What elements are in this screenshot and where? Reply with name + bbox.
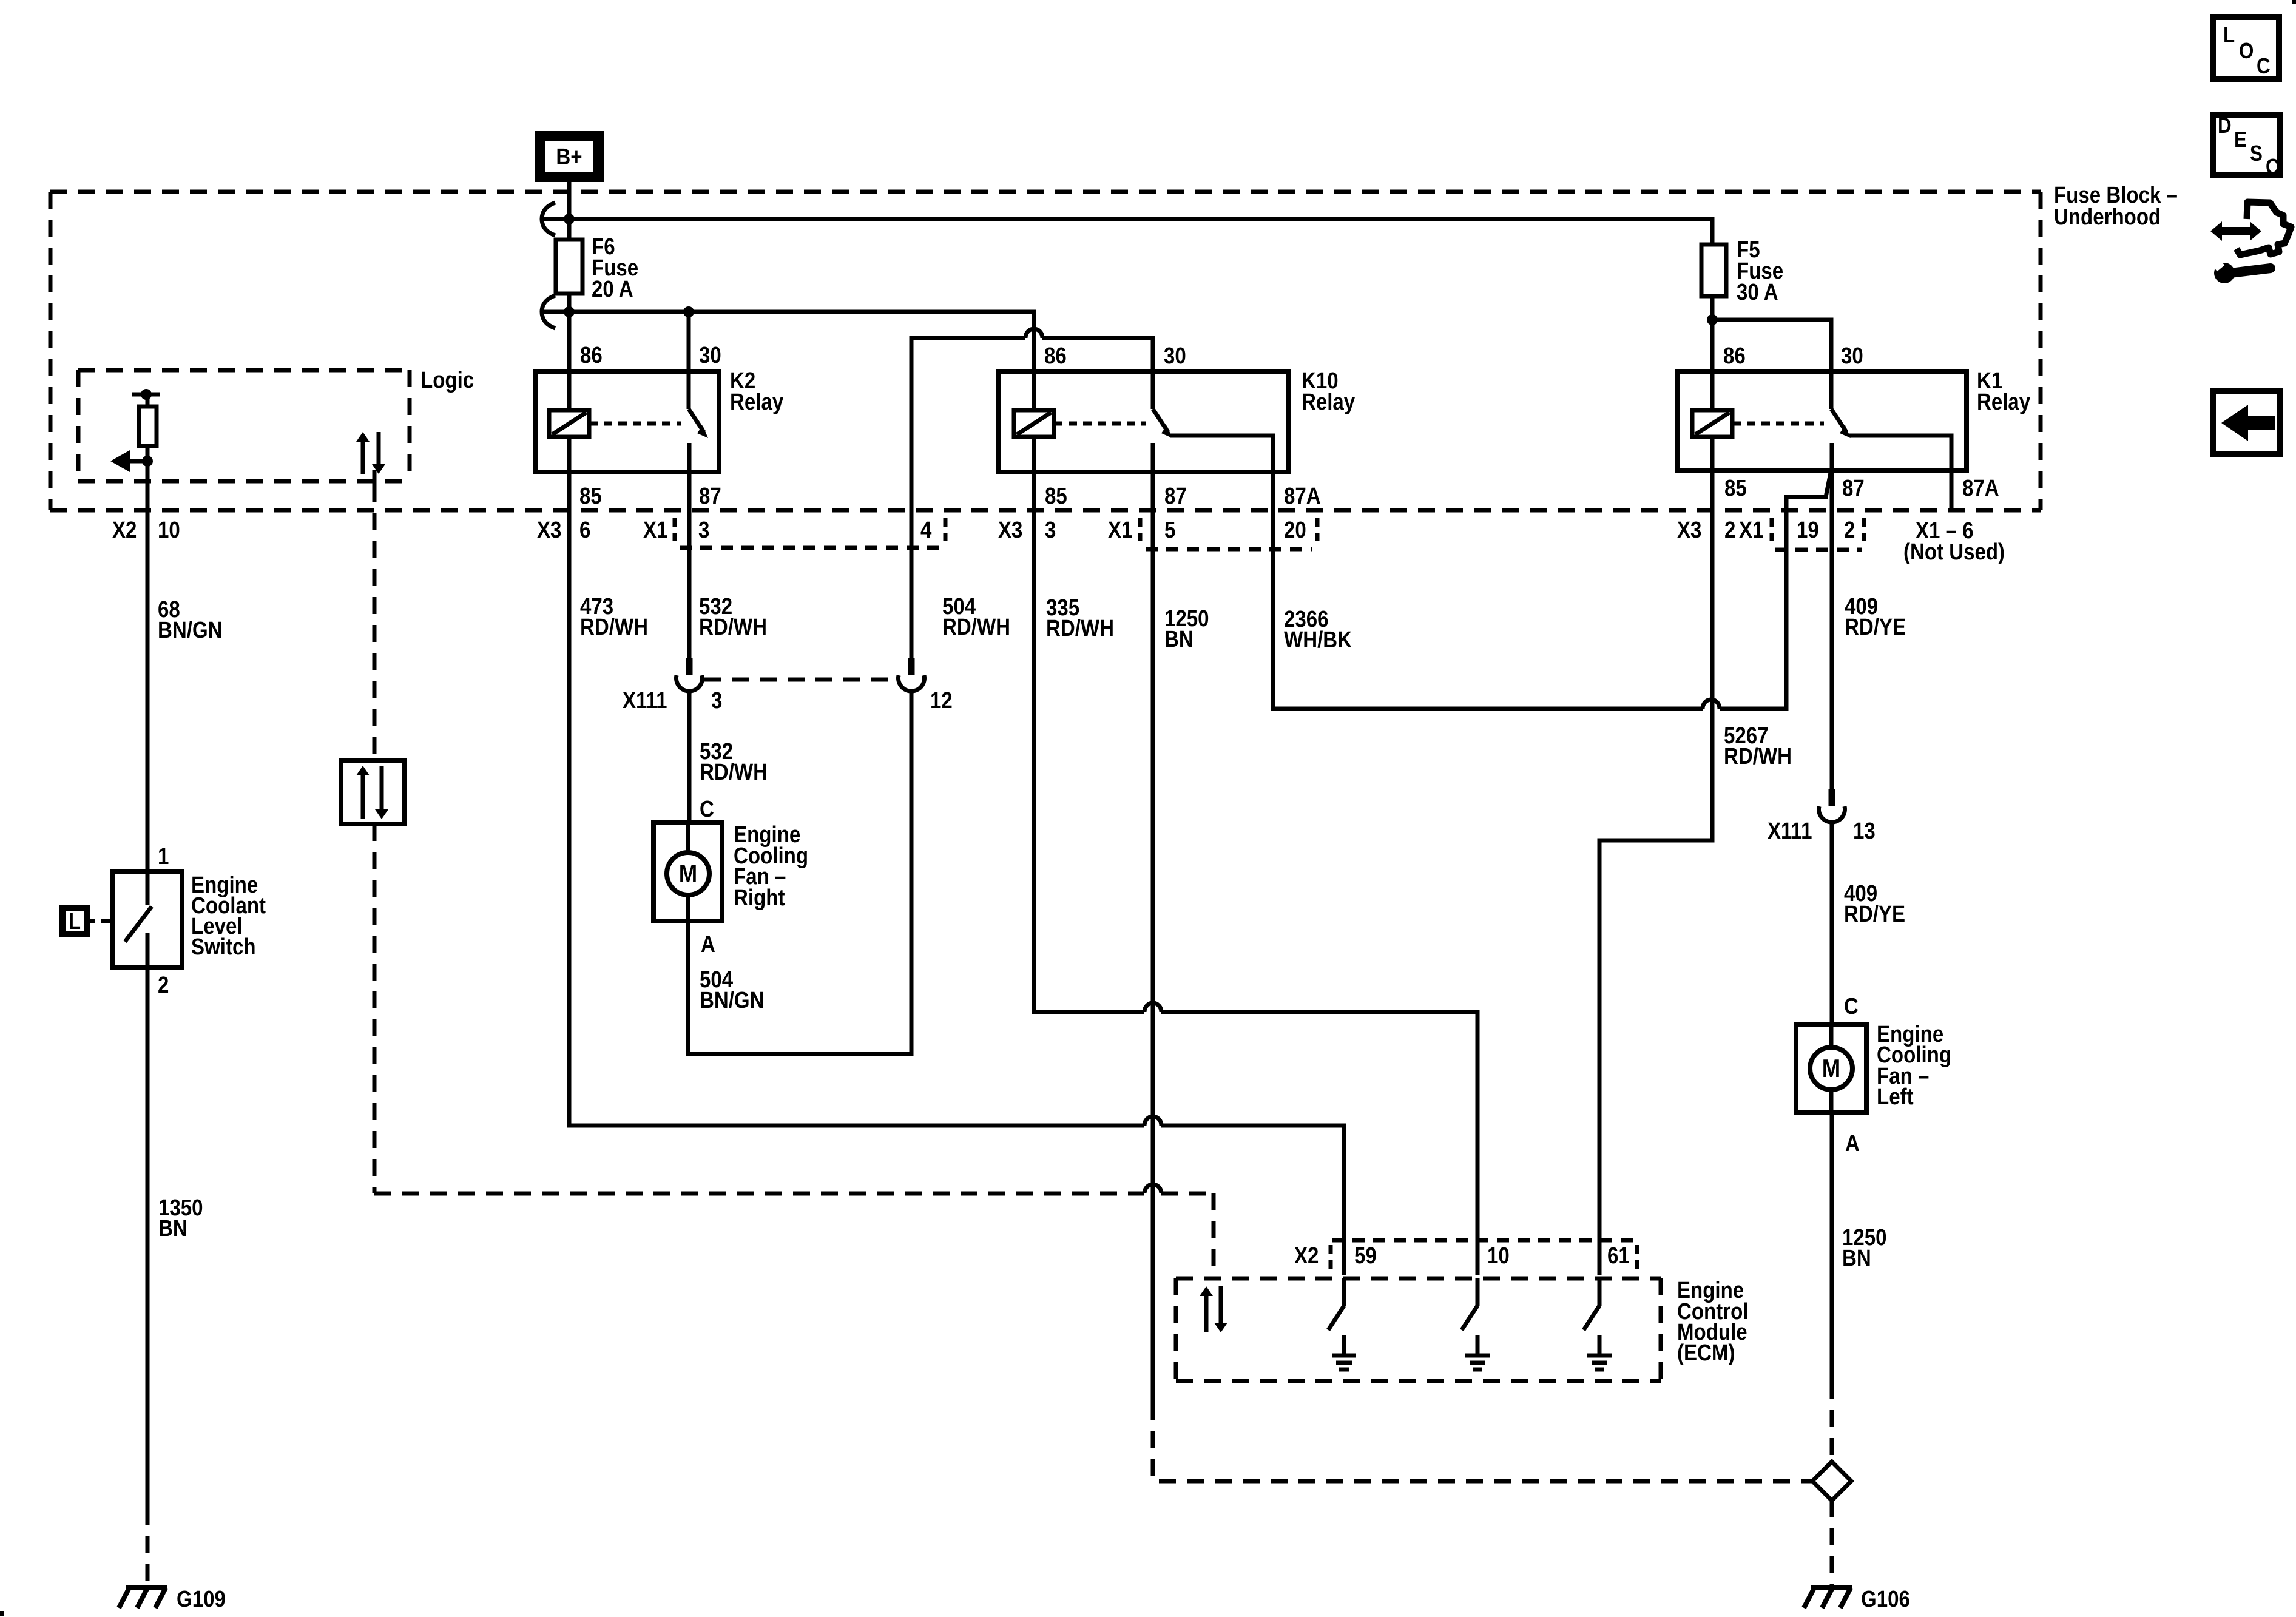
svg-text:BN: BN [158, 1215, 187, 1241]
label K1 Relay [1977, 368, 2030, 415]
wire labels 504 RD/WH [942, 593, 1010, 640]
svg-text:G106: G106 [1861, 1586, 1910, 1612]
svg-text:Left: Left [1877, 1084, 1914, 1110]
svg-text:RD/YE: RD/YE [1845, 614, 1906, 640]
wire labels 504 BN/GN [700, 967, 765, 1013]
svg-text:X3: X3 [537, 517, 561, 543]
label Engine Cooling Fan - Left [1877, 1021, 1951, 1110]
connector X1 dotted underside K2 side [680, 546, 940, 550]
connector X1 dashed tick at pin 4 [944, 518, 948, 541]
svg-text:X1: X1 [1108, 517, 1132, 543]
wire K1 pin 85 circuit 5267 down and left to ECM pin 61 [1599, 437, 1712, 1275]
svg-text:Logic: Logic [420, 367, 474, 393]
wire labels 473 RD/WH [580, 593, 648, 640]
relay K2 pin 87 stub [687, 443, 692, 472]
wire circuit 1250 fan left return down [1830, 1113, 1834, 1382]
wire labels 532 RD/WH at fan right [700, 738, 768, 785]
fan right motor internal lead [686, 823, 690, 921]
crossover hop of circuit 473 over circuit 1250 [1144, 1116, 1161, 1126]
crossover hop of circuit 2366 over circuit 5267 [1703, 700, 1720, 709]
svg-text:1: 1 [158, 843, 169, 869]
wire K2 pin 85 circuit 473 down and right to ECM pin 59 [569, 437, 1144, 1126]
wire labels 335 RD/WH [1046, 595, 1114, 641]
svg-text:L: L [2223, 23, 2235, 48]
engine cooling fan right motor box [653, 823, 722, 921]
svg-text:C: C [1844, 993, 1859, 1019]
svg-text:3: 3 [698, 517, 709, 543]
page corner mark bottom left [0, 1611, 4, 1616]
svg-text:X3: X3 [998, 517, 1022, 543]
svg-text:30: 30 [699, 342, 721, 368]
wire labels 2366 WH/BK [1284, 606, 1352, 653]
logic bidirectional arrows symbol [356, 432, 385, 474]
label K10 Relay [1302, 368, 1355, 415]
svg-text:L: L [69, 908, 81, 934]
svg-text:86: 86 [1044, 343, 1067, 369]
connector row labels X3 3 X1 5 20 under K10 [998, 517, 1306, 543]
relay K10 pin 87 stub [1151, 443, 1155, 472]
svg-text:C: C [700, 796, 714, 822]
svg-text:20: 20 [1284, 517, 1306, 543]
svg-text:X2: X2 [112, 517, 137, 543]
wire logic resistor down to X2-10 [146, 446, 150, 510]
wire labels 409 RD/YE upper [1845, 593, 1906, 640]
engine coolant level switch box [113, 872, 182, 967]
wire B+ down to fuse F6 [567, 182, 572, 240]
connector X111 pin 13 cup [1829, 789, 1835, 806]
wire below F6 to K2 relay coil pin 86 [567, 294, 572, 410]
svg-text:Relay: Relay [1302, 389, 1355, 415]
svg-text:RD/WH: RD/WH [699, 614, 767, 640]
logic resistor R [139, 394, 157, 446]
crossover hop of logic dashed wire over circuit 1250 [1144, 1184, 1161, 1193]
ECM driver switch pin 59 with ground [1328, 1278, 1356, 1369]
svg-text:87A: 87A [1962, 475, 1999, 501]
svg-text:2: 2 [1724, 517, 1735, 543]
svg-text:Relay: Relay [730, 389, 783, 415]
splice on B+ feed at wire to F5 [542, 203, 555, 235]
relay K2 actuator dashed link [589, 422, 681, 426]
relay K10 switch blade with arrowhead [1153, 409, 1172, 438]
svg-text:A: A [701, 931, 715, 957]
wire labels 409 RD/YE lower [1844, 880, 1905, 927]
svg-text:10: 10 [158, 517, 180, 543]
svg-text:2: 2 [158, 972, 169, 998]
svg-text:86: 86 [580, 342, 603, 368]
wire K10 pin 87A circuit 2366 down left loop to K1 pin 87 [1273, 472, 1703, 709]
junction node K2 pin 30 tap [683, 306, 694, 317]
margin icon DESC box [2213, 113, 2280, 180]
svg-text:X2: X2 [1294, 1243, 1319, 1269]
svg-text:85: 85 [1724, 475, 1747, 501]
connector X1 dashed tick at pin 19 [1770, 518, 1774, 541]
relay K10 actuator dashed link [1054, 422, 1146, 426]
svg-text:X3: X3 [1677, 517, 1701, 543]
B+ battery feed symbol [539, 135, 599, 178]
level sensor L box [62, 908, 87, 934]
label F6 Fuse 20 A [592, 234, 638, 302]
logic resistor top bar [132, 389, 160, 400]
ground G109 [119, 1587, 167, 1608]
fuse F5 [1701, 245, 1726, 296]
svg-text:WH/BK: WH/BK [1284, 627, 1352, 653]
svg-text:13: 13 [1853, 818, 1876, 844]
label X1 - 6 (Not Used) [1903, 518, 2005, 565]
dashed wire fan left 1250 to splice diamond [1830, 1382, 1834, 1462]
wire labels 1250 BN [1164, 606, 1209, 652]
relay K1 contact to 87A [1849, 436, 1951, 510]
dashed continuation of circuit 1250 to splice diamond [1153, 1403, 1812, 1481]
label Engine Cooling Fan - Right [734, 822, 808, 911]
svg-text:(Not Used): (Not Used) [1903, 539, 2005, 565]
svg-text:BN: BN [1842, 1245, 1871, 1271]
svg-text:BN/GN: BN/GN [158, 617, 223, 643]
labels X111 13 [1768, 818, 1876, 844]
svg-text:12: 12 [930, 687, 953, 714]
engine cooling fan right motor M circle [667, 852, 709, 895]
svg-text:Underhood: Underhood [2054, 204, 2161, 230]
wire fused F6 feed to K10 pin 86 [544, 312, 1034, 410]
svg-text:O: O [2239, 39, 2254, 64]
svg-text:RD/WH: RD/WH [700, 759, 768, 785]
svg-text:BN/GN: BN/GN [700, 987, 765, 1013]
wire X111-3 down to fan right pin C [687, 692, 692, 823]
connector row labels X3 6 X1 3 under K2 [537, 517, 709, 543]
svg-text:S: S [2250, 141, 2263, 166]
label K2 Relay [730, 368, 783, 415]
wire below F5 to K1 pin 86 [1710, 296, 1715, 410]
wire circuit 504 from X1-4 up and over to K10 pin 30 [911, 338, 1025, 658]
margin icon back arrow box [2213, 391, 2280, 454]
splice diamond on circuit 1250 [1812, 1462, 1851, 1501]
wire circuit 504 fan right return loop to X111-12 [688, 692, 911, 1054]
relay K10 contact to 87A [1170, 436, 1273, 472]
relay K2 pin labels 86 30 85 87 [579, 342, 721, 509]
svg-text:87A: 87A [1284, 483, 1321, 509]
svg-text:RD/WH: RD/WH [1046, 615, 1114, 641]
svg-text:30: 30 [1164, 343, 1186, 369]
svg-text:Switch: Switch [191, 934, 256, 960]
ECM connector X2 dotted line [1332, 1238, 1637, 1243]
logic output arrow left [110, 450, 153, 472]
ECM driver switch pin 10 with ground [1462, 1278, 1490, 1369]
wire labels 532 RD/WH upper [699, 593, 767, 640]
wire K1 pin 87 circuit 409 down to connector X111-13 [1830, 470, 1834, 789]
svg-text:Relay: Relay [1977, 389, 2030, 415]
svg-text:87: 87 [699, 483, 721, 509]
wire circuit 68 down to coolant level switch [146, 510, 150, 872]
wire K10 pin 87 circuit 1250 down [1151, 472, 1155, 1403]
svg-text:19: 19 [1797, 517, 1819, 543]
junction node below F6 [564, 306, 575, 317]
fan left motor internal lead [1829, 1024, 1834, 1113]
wire labels 1350 BN [158, 1195, 203, 1241]
svg-text:RD/WH: RD/WH [942, 614, 1010, 640]
fuse F6 [556, 240, 582, 294]
relay K2 coil [549, 410, 589, 437]
svg-text:3: 3 [711, 687, 722, 714]
svg-text:E: E [2234, 127, 2247, 152]
wire labels 5267 RD/WH [1724, 723, 1792, 769]
wire circuit 1350 down to ground G109 [146, 967, 150, 1508]
labels X111 3 12 [623, 687, 953, 714]
dashed logic control wire down [373, 470, 377, 761]
connector X1 dashed tick at pin 5 [1138, 518, 1143, 541]
svg-text:5: 5 [1164, 517, 1175, 543]
relay K10 box [999, 371, 1288, 472]
svg-text:M: M [679, 860, 697, 888]
svg-text:C: C [2257, 54, 2271, 79]
wire from B+ node to fuse F5 (top bus) [544, 219, 1712, 245]
wire K10 pin 85 circuit 335 down and right to ECM pin 10 [1034, 437, 1144, 1012]
relay K1 pin labels 86 30 85 87 87A [1723, 343, 1999, 501]
page corner mark top right [2292, 0, 2296, 4]
crossover hop of circuit 335 over circuit 1250 [1144, 1003, 1161, 1012]
ECM driver switch pin 61 with ground [1584, 1278, 1612, 1369]
relay K10 pin labels 86 30 85 87 87A [1044, 343, 1321, 509]
wire F5 node to K1 pin 30 [1712, 320, 1831, 409]
svg-text:B+: B+ [556, 144, 582, 170]
dashed actuator link L box to switch [87, 919, 113, 923]
svg-text:Right: Right [734, 885, 785, 911]
relay K10 coil [1014, 410, 1054, 437]
connector X111 pin 12 cup [908, 658, 915, 675]
relay K1 actuator dashed link [1732, 422, 1824, 426]
label F5 Fuse 30 A [1737, 237, 1783, 305]
svg-text:2: 2 [1844, 517, 1855, 543]
connector X111 pin 3 cup [686, 658, 693, 675]
connector row labels X3 2 X1 19 2 under K1 [1677, 517, 1855, 543]
relay K2 switch blade with arrowhead [689, 409, 708, 438]
engine cooling fan left motor box [1796, 1024, 1866, 1113]
dashed wire diamond down to ground G106 [1830, 1501, 1834, 1585]
svg-text:BN: BN [1164, 626, 1194, 652]
connector X1 dashed tick at pin 3 [673, 518, 677, 541]
margin icon LOC box [2213, 17, 2279, 79]
connector X111 dashed link between pins 3 and 12 [704, 678, 896, 682]
coolant level switch contacts [125, 872, 152, 967]
wire labels 1250 BN at fan left [1842, 1224, 1887, 1271]
svg-text:61: 61 [1607, 1243, 1630, 1269]
labels X2 10 [112, 517, 180, 543]
svg-text:20 A: 20 A [592, 276, 633, 302]
wire K2 pin 87 circuit 532 down to connector X111-3 [687, 472, 692, 658]
ECM dashed box [1176, 1278, 1661, 1381]
wire labels 68 BN/GN [158, 596, 223, 643]
ground G106 [1804, 1587, 1852, 1608]
connector X1 dashed tick at pin 2 [1862, 518, 1866, 541]
svg-text:85: 85 [1045, 483, 1067, 509]
dashed logic control wire to ECM [374, 824, 1214, 1278]
svg-text:RD/YE: RD/YE [1844, 901, 1905, 927]
svg-text:30 A: 30 A [1737, 279, 1778, 305]
svg-text:A: A [1845, 1130, 1860, 1156]
ECM connector X2 tick left [1329, 1245, 1333, 1271]
svg-text:87: 87 [1842, 475, 1865, 501]
labels X2 59 10 61 [1294, 1243, 1630, 1269]
svg-text:G109: G109 [177, 1586, 226, 1612]
connector X1 dashed tick at pin 20 [1315, 518, 1320, 541]
wire X111-13 down to fan left pin C [1830, 823, 1834, 1024]
connector X1 dotted underside K1 side [1775, 548, 1862, 552]
serial data arrows box [341, 761, 405, 824]
label Engine Control Module (ECM) [1677, 1277, 1749, 1366]
svg-text:87: 87 [1164, 483, 1187, 509]
relay K1 pin 87 stub [1830, 443, 1834, 470]
svg-text:C: C [2266, 155, 2280, 180]
engine cooling fan left motor M circle [1810, 1047, 1852, 1090]
connector X1 dotted underside K10 side [1146, 547, 1312, 552]
svg-text:3: 3 [1045, 517, 1056, 543]
ECM connector X2 tick right [1635, 1245, 1639, 1271]
svg-text:59: 59 [1354, 1243, 1377, 1269]
crossover hop of circuit 504 over K10 86 wire [1025, 329, 1042, 338]
label Engine Coolant Level Switch [191, 872, 266, 960]
relay K1 switch blade with arrowhead [1831, 409, 1851, 438]
svg-text:D: D [2218, 113, 2232, 138]
svg-text:6: 6 [579, 517, 590, 543]
margin icon connector-tool with double arrow and wrench [2210, 202, 2291, 283]
junction node below F5 [1707, 314, 1718, 325]
logic dashed box [78, 370, 410, 481]
svg-text:M: M [1822, 1055, 1840, 1083]
svg-text:X111: X111 [1768, 818, 1812, 844]
fuse block - underhood dashed boundary box [50, 192, 2041, 510]
label Fuse Block - Underhood [2054, 182, 2178, 230]
svg-text:30: 30 [1841, 343, 1863, 369]
relay K1 box [1677, 371, 1967, 470]
svg-text:RD/WH: RD/WH [1724, 743, 1792, 769]
svg-text:X1: X1 [643, 517, 667, 543]
svg-text:RD/WH: RD/WH [580, 614, 648, 640]
svg-text:4: 4 [920, 517, 932, 543]
svg-text:X111: X111 [623, 687, 667, 714]
svg-text:85: 85 [579, 483, 602, 509]
svg-text:86: 86 [1723, 343, 1746, 369]
svg-text:10: 10 [1487, 1243, 1510, 1269]
relay K2 box [536, 371, 719, 472]
relay K1 coil [1692, 410, 1732, 437]
svg-text:X1: X1 [1739, 517, 1763, 543]
ECM bidirectional arrows symbol [1200, 1286, 1227, 1332]
splice on fused feed below F6 [542, 295, 555, 328]
wire tap down to K2 pin 30 [687, 312, 691, 409]
svg-text:(ECM): (ECM) [1677, 1340, 1735, 1366]
junction node B+ / F5 feed wire [564, 214, 575, 224]
dashed wire to ground G109 [146, 1508, 150, 1585]
